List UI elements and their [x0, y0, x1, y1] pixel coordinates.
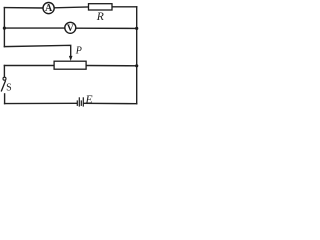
- wire left vertical upper (rows 1-3): [3, 8, 5, 47]
- wire right vertical: [136, 7, 138, 104]
- resistor R: [89, 4, 113, 24]
- wire P row right segment: [86, 65, 137, 67]
- wire voltmeter row left segment: [4, 27, 64, 29]
- potentiometer P body: [54, 61, 86, 69]
- switch S: [1, 77, 11, 93]
- wire left vertical to switch: [3, 66, 5, 78]
- svg-text:R: R: [96, 10, 104, 23]
- svg-text:V: V: [67, 24, 74, 34]
- wire top row between ammeter and resistor R: [55, 6, 89, 9]
- node junction dot right (P row): [135, 64, 138, 67]
- node junction dot left (voltmeter tap): [3, 27, 6, 30]
- wire bottom row left segment: [5, 102, 77, 104]
- battery E: [77, 93, 92, 107]
- svg-text:A: A: [45, 3, 53, 14]
- wire P row left segment: [4, 65, 54, 67]
- node junction dot right (voltmeter tap): [135, 27, 138, 30]
- wire voltmeter row right segment: [76, 27, 137, 29]
- svg-text:P: P: [75, 46, 82, 57]
- wire top row left segment: [4, 7, 42, 9]
- svg-text:S: S: [6, 82, 12, 93]
- wire bottom row right segment: [84, 102, 137, 104]
- svg-text:E: E: [85, 93, 93, 106]
- potentiometer P wiper arrow: [69, 46, 82, 61]
- voltmeter V: [65, 22, 76, 34]
- wire top row right segment: [112, 6, 137, 8]
- wire wiper feed row 3: [4, 45, 70, 57]
- wire left vertical below switch: [4, 94, 6, 104]
- ammeter A: [43, 3, 54, 15]
